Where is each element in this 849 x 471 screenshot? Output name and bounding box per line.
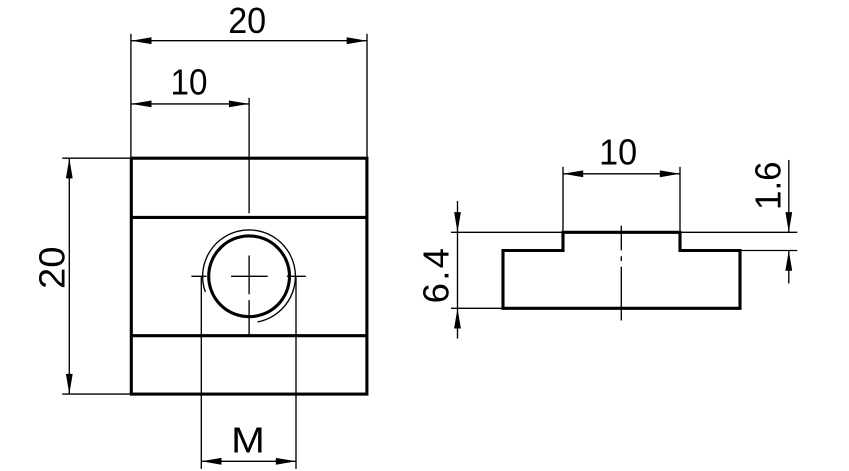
dimension M (thread): extension line right (295, 276, 297, 469)
dimension 6.4 (total height): extension line lower (451, 307, 502, 309)
hole vertical centerline (also extension of 10 dim) (248, 98, 250, 336)
dimension 6.4 (total height): dimension line (457, 201, 459, 339)
dimension 20 (top width): dimension line (131, 40, 367, 42)
dimension M (thread): extension line left (200, 276, 202, 469)
top view: T-nut body outline (131, 158, 367, 394)
top view: lower slot edge line (131, 334, 367, 337)
dimension 20 (top width): extension line right (366, 34, 368, 157)
dimension 10 (side top width): extension line left (562, 167, 564, 231)
dimension 20 (left height): extension line top (62, 157, 130, 159)
dimension 1.6 (step height): dimension line upper tail (788, 160, 790, 232)
dimension 10 (side top width): dimension line (563, 173, 680, 175)
dimension M (thread): left arrow (201, 458, 221, 465)
dimension 1.6 (step height): extension line upper (682, 231, 798, 233)
svg-text:20: 20 (228, 0, 266, 41)
dimension 20 (left height): bottom arrow (66, 374, 73, 394)
dimension 1.6 (step height): lower arrow (points up) (785, 251, 792, 271)
tapped hole: thread major diameter thin arc (203, 230, 296, 322)
dimension 6.4 (total height): lower arrow (points up) (454, 308, 461, 328)
dimension 1.6 (step height): upper arrow (points down) (785, 212, 792, 232)
dimension 10 (hole position): dimension line (131, 103, 249, 105)
svg-text:10: 10 (599, 132, 637, 173)
dimension 10 (side top width): extension line right (679, 167, 681, 231)
dimension 1.6 (step height): extension line lower (742, 250, 798, 252)
dimension M (thread): right arrow (276, 458, 296, 465)
dimension 10 (hole position): left arrow (131, 101, 151, 108)
dimension 20 (top width): left arrow (131, 37, 151, 44)
svg-text:1.6: 1.6 (748, 161, 789, 210)
side view: T-nut profile outline (503, 232, 740, 308)
dimension 20 (top width): right arrow (347, 37, 367, 44)
svg-text:M: M (231, 420, 265, 461)
hole horizontal centerline (191, 275, 305, 277)
dimension 6.4 (total height): extension line upper (451, 231, 562, 233)
dimension M (thread): dimension line (201, 460, 296, 462)
dimension 10 (side top width): left arrow (563, 170, 583, 177)
svg-text:20: 20 (32, 247, 73, 290)
side view: vertical centerline (dash-dot) (620, 226, 622, 321)
dimension 10 (side top width): right arrow (660, 170, 680, 177)
dimension 20 (top width): extension line left (130, 34, 132, 157)
svg-text:6.4: 6.4 (415, 248, 456, 303)
dimension 10 (hole position): right arrow (229, 101, 249, 108)
dimension 20 (left height): top arrow (66, 158, 73, 178)
tapped hole: minor (drill) circle (209, 236, 290, 317)
dimension 20 (left height): dimension line (68, 158, 70, 394)
svg-text:10: 10 (171, 62, 208, 103)
top view: upper slot edge line (131, 216, 367, 219)
dimension 1.6 (step height): dimension line lower tail (788, 251, 790, 284)
dimension 6.4 (total height): upper arrow (points down) (454, 212, 461, 232)
dimension 20 (left height): extension line bottom (62, 393, 130, 395)
